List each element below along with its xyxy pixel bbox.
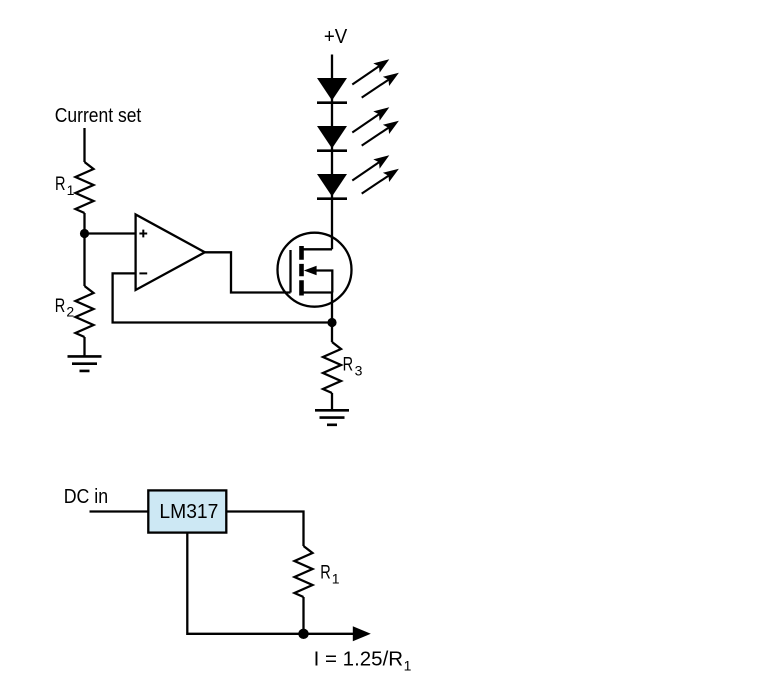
svg-text:1: 1 bbox=[404, 657, 412, 673]
svg-text:R: R bbox=[55, 174, 66, 195]
svg-text:3: 3 bbox=[355, 362, 363, 378]
svg-text:I = 1.25/R: I = 1.25/R bbox=[314, 648, 404, 671]
svg-text:1: 1 bbox=[332, 570, 340, 586]
svg-text:Current set: Current set bbox=[55, 104, 142, 127]
svg-text:R: R bbox=[343, 355, 354, 376]
svg-text:LM317: LM317 bbox=[159, 501, 218, 523]
svg-text:1: 1 bbox=[67, 182, 75, 198]
svg-text:+V: +V bbox=[324, 26, 348, 48]
svg-text:R: R bbox=[320, 563, 331, 584]
svg-text:DC in: DC in bbox=[64, 486, 108, 508]
svg-text:2: 2 bbox=[66, 304, 74, 320]
svg-text:R: R bbox=[55, 296, 66, 317]
